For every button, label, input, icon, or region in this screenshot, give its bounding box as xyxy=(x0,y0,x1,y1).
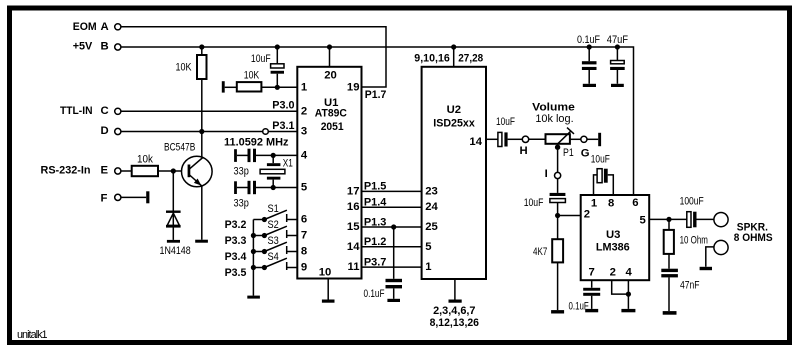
svg-text:19: 19 xyxy=(347,81,360,93)
wire 47uF decouple xyxy=(616,47,618,84)
resistor 10k RS-232 xyxy=(132,166,158,176)
junction +5V 0.1uF xyxy=(587,44,592,49)
wire 0.1uF ground xyxy=(393,288,395,298)
svg-text:9,10,16: 9,10,16 xyxy=(414,53,450,65)
capacitor 47uF decouple xyxy=(610,61,625,71)
wire U3 pin1 to cap xyxy=(594,175,598,195)
svg-text:LM386: LM386 xyxy=(596,241,630,253)
wire G stub xyxy=(587,138,598,140)
svg-text:P3.5: P3.5 xyxy=(225,267,247,279)
transistor Q1 BC547B xyxy=(182,156,213,187)
svg-text:P1.4: P1.4 xyxy=(364,197,387,209)
ground U2 xyxy=(449,300,462,303)
wire +5V to U2 top xyxy=(453,47,455,67)
svg-text:P3.0: P3.0 xyxy=(272,100,294,112)
svg-text:5: 5 xyxy=(301,182,307,194)
wire U3 pin2 pin4 ground xyxy=(612,280,629,309)
capacitor 100uF xyxy=(687,212,697,228)
svg-text:F: F xyxy=(101,192,108,204)
wire pin10 ground xyxy=(327,279,329,300)
node I circle xyxy=(555,172,561,178)
svg-text:U2: U2 xyxy=(447,104,461,116)
capacitor 10uF amp in xyxy=(550,193,566,203)
svg-text:14: 14 xyxy=(347,241,360,253)
ground 0.1uF U1 xyxy=(387,299,400,302)
ground 0.1uF decouple xyxy=(583,84,596,87)
svg-text:6: 6 xyxy=(632,197,638,209)
svg-text:P1: P1 xyxy=(563,147,574,159)
junction +5V 10uF xyxy=(275,44,280,49)
ground U3 pin4 xyxy=(621,309,635,312)
junction bus S3 xyxy=(251,249,256,254)
resistor 10K reset xyxy=(237,82,262,91)
svg-text:TTL-IN: TTL-IN xyxy=(60,105,93,117)
ground U3 pin7 xyxy=(585,309,598,312)
svg-text:0.1uF: 0.1uF xyxy=(577,34,600,46)
svg-text:8,12,13,26: 8,12,13,26 xyxy=(430,317,479,329)
svg-text:10: 10 xyxy=(319,267,332,279)
wire U3 pin7 chain xyxy=(591,280,593,309)
junction pin1 xyxy=(275,85,280,90)
svg-text:10K: 10K xyxy=(176,61,193,73)
svg-text:1N4148: 1N4148 xyxy=(160,245,191,257)
svg-text:8: 8 xyxy=(301,246,307,258)
ground diode xyxy=(167,240,180,243)
wire 10k to base xyxy=(158,170,188,172)
wire 4K7 to ground xyxy=(557,262,559,310)
wire P3.1 to U1 pin3 xyxy=(268,131,297,133)
svg-text:1: 1 xyxy=(591,197,597,209)
svg-text:G: G xyxy=(581,148,590,160)
svg-text:25: 25 xyxy=(425,221,438,233)
speaker terminal bottom xyxy=(714,240,728,254)
junction P1.3 cap xyxy=(391,224,396,229)
op-amp U3 LM386 body xyxy=(581,195,650,280)
stub bar reset xyxy=(222,81,225,92)
diode 1N4148 xyxy=(166,211,181,228)
svg-text:9: 9 xyxy=(301,262,307,274)
svg-text:47nF: 47nF xyxy=(680,280,700,292)
switch S1 xyxy=(262,210,298,222)
svg-text:S2: S2 xyxy=(268,219,279,231)
resistor R 10K pullup xyxy=(197,55,207,79)
svg-text:10uF: 10uF xyxy=(496,116,515,128)
svg-text:P3.1: P3.1 xyxy=(272,120,294,132)
node P3.1 circle xyxy=(263,129,269,135)
wire I to 10uF xyxy=(557,179,559,193)
wire 10K bottom to collector xyxy=(201,79,203,158)
chip U2 ISD25xx body xyxy=(422,67,486,279)
wire H to pot xyxy=(529,138,546,140)
crystal X1 xyxy=(260,163,285,179)
capacitor 47nF xyxy=(661,269,678,278)
stub bar G xyxy=(598,133,601,146)
wire diode xyxy=(172,171,174,240)
svg-text:P1.2: P1.2 xyxy=(364,236,387,248)
svg-text:10K: 10K xyxy=(244,70,260,82)
resistor 4K7 xyxy=(552,239,563,262)
ground speaker xyxy=(700,267,712,270)
wire D to P3.1 circle xyxy=(121,131,263,133)
potentiometer P1 body xyxy=(546,134,570,144)
terminal A xyxy=(115,24,121,30)
wire junction to U3 pin2 xyxy=(558,215,581,217)
junction E diode xyxy=(171,168,176,173)
wire +5V to 10uF xyxy=(276,47,278,64)
svg-text:11: 11 xyxy=(348,261,360,273)
wire stub to 33p bottom xyxy=(237,187,248,189)
svg-text:24: 24 xyxy=(425,201,438,213)
junction bus S4 xyxy=(251,265,256,270)
svg-text:2,3,4,6,7: 2,3,4,6,7 xyxy=(433,305,475,317)
svg-text:AT89C: AT89C xyxy=(315,107,347,119)
wire +5V to pin20 xyxy=(329,47,331,67)
svg-text:P1.7: P1.7 xyxy=(365,89,387,101)
junction pin20 xyxy=(327,44,332,49)
junction bus S2 xyxy=(251,233,256,238)
wire 10K top to +5V xyxy=(201,47,203,55)
svg-text:1: 1 xyxy=(425,261,431,273)
wire U3 pin8 to cap xyxy=(608,175,614,195)
terminal D xyxy=(115,128,121,134)
switch S4 xyxy=(262,258,298,270)
svg-text:7: 7 xyxy=(301,230,307,242)
wire 10uF to pin1 xyxy=(276,74,278,88)
wire 10K to U1 pin1 xyxy=(261,86,297,88)
svg-text:D: D xyxy=(101,125,109,137)
wire X1 bottom xyxy=(272,180,274,188)
svg-text:10k: 10k xyxy=(137,153,153,165)
capacitor 0.1uF U1 xyxy=(386,279,403,289)
wire cap to H xyxy=(508,138,523,140)
svg-text:4: 4 xyxy=(301,149,308,161)
terminal E xyxy=(115,168,121,174)
svg-text:+5V: +5V xyxy=(73,41,93,53)
wire pin14 to cap xyxy=(486,138,498,140)
ground emitter xyxy=(195,240,208,243)
wire P1.4 xyxy=(362,206,422,208)
junction X1 bottom xyxy=(271,185,276,190)
ground 47uF decouple xyxy=(611,84,624,87)
svg-text:10 Ohm: 10 Ohm xyxy=(680,234,708,246)
svg-text:B: B xyxy=(101,41,109,53)
svg-text:5: 5 xyxy=(425,241,431,253)
svg-text:3: 3 xyxy=(301,126,307,138)
wire 10 Ohm to 47nF xyxy=(668,254,670,269)
svg-text:6: 6 xyxy=(301,214,307,226)
svg-text:2: 2 xyxy=(610,266,616,278)
svg-text:S4: S4 xyxy=(268,251,279,263)
svg-text:15: 15 xyxy=(347,221,360,233)
capacitor 10uF reset xyxy=(271,64,284,74)
svg-text:10uF: 10uF xyxy=(524,197,544,209)
svg-text:33p: 33p xyxy=(234,198,249,210)
wire 10uF to junction xyxy=(557,203,559,240)
svg-text:10k log.: 10k log. xyxy=(535,113,573,125)
svg-text:BC547B: BC547B xyxy=(164,142,195,154)
svg-text:C: C xyxy=(101,105,109,117)
capacitor 33p top xyxy=(248,149,257,162)
wire A to pin19 P1.7 xyxy=(121,27,386,87)
svg-text:unitalk1: unitalk1 xyxy=(17,329,48,341)
svg-text:10uF: 10uF xyxy=(251,53,271,65)
wire 100uF to speaker xyxy=(697,218,715,220)
capacitor 10uF bypass xyxy=(597,169,608,183)
wire B +5V rail xyxy=(121,47,634,195)
ground switch bus xyxy=(247,296,260,299)
ground 4K7 xyxy=(551,310,564,313)
wire X1 top xyxy=(272,155,274,163)
switch S3 xyxy=(262,242,298,254)
svg-text:7: 7 xyxy=(589,266,595,278)
terminal F xyxy=(115,194,121,200)
capacitor 0.1uF decouple xyxy=(582,61,597,70)
switch S2 xyxy=(262,226,298,238)
wire pot to G xyxy=(570,138,581,140)
svg-text:2051: 2051 xyxy=(321,121,344,133)
svg-text:1: 1 xyxy=(301,81,307,93)
ground pin10 xyxy=(322,300,335,303)
junction pin4 xyxy=(626,292,631,297)
wire C to U1 pin2 xyxy=(121,110,297,112)
svg-text:14: 14 xyxy=(469,136,482,148)
node H circle xyxy=(522,136,528,142)
svg-text:P1.3: P1.3 xyxy=(364,216,387,228)
svg-text:P1.5: P1.5 xyxy=(364,181,387,193)
svg-text:ISD25xx: ISD25xx xyxy=(433,117,475,129)
stub bar F xyxy=(146,191,149,203)
svg-text:16: 16 xyxy=(347,201,360,213)
svg-text:33p: 33p xyxy=(234,166,249,178)
stub bar 33p top xyxy=(234,149,237,162)
wire F stub xyxy=(121,196,146,198)
svg-text:8: 8 xyxy=(608,197,614,209)
svg-text:E: E xyxy=(101,165,109,177)
wire stub to 33p top xyxy=(237,154,248,156)
svg-text:11.0592 MHz: 11.0592 MHz xyxy=(224,136,289,148)
wire 0.1uF decouple xyxy=(588,47,590,84)
svg-text:X1: X1 xyxy=(283,158,293,170)
svg-text:100uF: 100uF xyxy=(680,196,704,208)
terminal B xyxy=(115,44,121,50)
wire emitter to ground xyxy=(201,186,203,240)
svg-text:RS-232-In: RS-232-In xyxy=(41,165,91,177)
svg-text:P3.7: P3.7 xyxy=(364,256,387,268)
junction amp in xyxy=(555,213,560,218)
svg-text:U3: U3 xyxy=(606,229,620,241)
junction 10K +5V xyxy=(199,44,204,49)
wire speaker bottom ground xyxy=(706,247,714,267)
junction +5V U2 xyxy=(451,44,456,49)
resistor 10 Ohm xyxy=(664,230,674,254)
svg-text:H: H xyxy=(520,145,528,157)
stub bar 33p bottom xyxy=(234,181,237,194)
svg-text:5: 5 xyxy=(640,214,646,226)
wire P1.2 xyxy=(362,246,422,248)
svg-text:0.1uF: 0.1uF xyxy=(364,288,385,300)
wire output to 10 Ohm xyxy=(668,219,670,230)
svg-text:27,28: 27,28 xyxy=(458,53,483,65)
op-amp U1 AT89C2051 body xyxy=(297,67,361,279)
terminal C xyxy=(115,108,121,114)
junction pot wiper xyxy=(555,145,560,150)
wire switch bus xyxy=(253,220,264,296)
svg-text:4K7: 4K7 xyxy=(533,246,547,258)
wire P3.7 xyxy=(362,266,422,268)
junction X1 top xyxy=(271,153,276,158)
junction D collector xyxy=(199,129,204,134)
svg-text:EOM: EOM xyxy=(73,21,97,33)
capacitor 33p bottom xyxy=(248,181,257,194)
svg-text:S3: S3 xyxy=(268,235,279,247)
svg-text:2: 2 xyxy=(584,208,590,220)
wire 33p to U1 pin4 xyxy=(256,154,297,156)
svg-text:P3.3: P3.3 xyxy=(225,235,247,247)
svg-text:17: 17 xyxy=(347,185,360,197)
capacitor 10uF audio out xyxy=(498,132,508,146)
svg-text:P3.2: P3.2 xyxy=(225,219,247,231)
capacitor 0.1uF U3 xyxy=(583,288,600,296)
speaker terminal top xyxy=(714,213,728,227)
svg-text:I: I xyxy=(545,168,548,180)
wire U2 bottom ground xyxy=(454,279,456,300)
svg-text:23: 23 xyxy=(425,185,438,197)
svg-text:10uF: 10uF xyxy=(591,153,610,165)
wire wiper down to I xyxy=(557,144,559,173)
svg-text:4: 4 xyxy=(625,266,632,278)
junction +5V 47uF xyxy=(615,44,620,49)
svg-text:Volume: Volume xyxy=(532,102,575,114)
svg-text:A: A xyxy=(101,21,109,33)
wire 47nF ground xyxy=(668,277,670,311)
wire U3 pin5 out xyxy=(649,218,687,220)
wire stub to 10K xyxy=(225,86,237,88)
ground 47nF xyxy=(663,311,677,315)
svg-text:8 OHMS: 8 OHMS xyxy=(734,232,773,244)
potentiometer P1 wiper arrow xyxy=(558,128,574,144)
node G circle xyxy=(581,136,587,142)
svg-text:S1: S1 xyxy=(268,203,279,215)
wire 33p to U1 pin5 xyxy=(256,187,297,189)
svg-text:P3.4: P3.4 xyxy=(225,251,247,263)
wire P1.3 to 0.1uF xyxy=(393,227,395,279)
svg-text:20: 20 xyxy=(324,70,337,82)
wire P1.5 xyxy=(362,190,422,192)
svg-text:2: 2 xyxy=(301,105,307,117)
svg-text:47uF: 47uF xyxy=(607,34,629,46)
wire E to resistor 10k xyxy=(121,170,132,172)
junction output xyxy=(666,217,671,222)
wire P1.3 xyxy=(362,226,422,228)
